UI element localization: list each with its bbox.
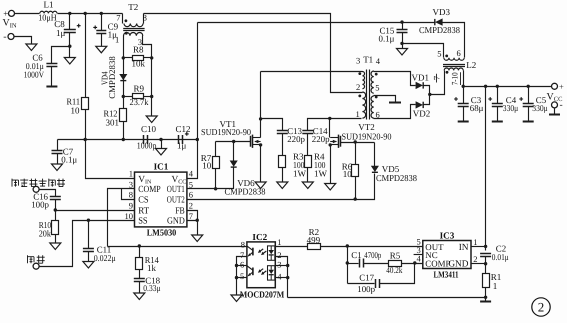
wire R9 to vert <box>144 96 152 98</box>
node Vin- terminal <box>8 34 14 40</box>
op-amp IC2 MOCD207M box <box>247 242 275 288</box>
wire IC2 pin2 down <box>276 257 288 298</box>
wire to R9 <box>124 96 133 98</box>
svg-text:7-10: 7-10 <box>449 72 459 85</box>
svg-text:L2: L2 <box>466 60 476 70</box>
svg-text:1: 1 <box>356 109 360 119</box>
ground R4 <box>302 182 313 189</box>
resistor R1 <box>483 274 490 288</box>
svg-text:3: 3 <box>129 179 133 189</box>
ground C11 <box>83 262 94 269</box>
ground VT1 source <box>255 182 266 189</box>
transformer T1 <box>358 70 377 120</box>
svg-text:6: 6 <box>240 259 244 269</box>
wire R6 bottom <box>355 177 357 200</box>
junction R7 bottom <box>214 187 217 190</box>
wire CS to COMP <box>122 189 135 200</box>
resistor R5 <box>389 261 402 267</box>
wire C18 to ground <box>139 282 141 294</box>
wire rail to C4 <box>497 87 499 104</box>
junction R8 right <box>150 56 153 59</box>
wire L2 pin7 to rectifier node <box>430 71 445 95</box>
svg-text:C17: C17 <box>359 272 374 282</box>
svg-text:0.022μ: 0.022μ <box>94 253 116 263</box>
svg-text:CS: CS <box>138 196 148 206</box>
wire GND pin <box>472 263 486 265</box>
junction C17 right <box>413 261 416 264</box>
capacitor C5 <box>523 103 534 105</box>
svg-text:2: 2 <box>356 82 360 92</box>
wire C1 to R5 <box>364 263 389 265</box>
junction C1 <box>346 261 349 264</box>
capacitor C15 <box>397 29 408 31</box>
svg-text:20k: 20k <box>39 229 52 239</box>
wire R4 to ground <box>307 168 309 183</box>
wire VD5 top <box>374 143 376 167</box>
svg-text:6: 6 <box>376 109 380 119</box>
svg-text:23.7k: 23.7k <box>130 97 149 107</box>
svg-text:6: 6 <box>189 190 193 200</box>
wire C16 to RT node <box>55 200 57 211</box>
resistor R8 <box>133 56 144 61</box>
svg-text:8: 8 <box>129 190 133 200</box>
junction C10/C12 ground <box>159 138 162 141</box>
op-amp IC1 LM5030 box <box>135 172 187 227</box>
IC3 pin numbers <box>417 237 478 265</box>
wire C5 to bar <box>528 107 530 122</box>
svg-text:1000p: 1000p <box>137 140 157 150</box>
inductor L1 <box>40 11 57 13</box>
svg-text:5: 5 <box>437 49 441 59</box>
svg-text:40.2k: 40.2k <box>386 265 402 275</box>
node Vout+ terminal <box>552 83 558 89</box>
junction R11/C7 rail <box>84 138 87 141</box>
junction C15/ground/L2 <box>400 42 403 45</box>
capacitor C13 <box>277 130 288 132</box>
capacitor C12 <box>178 135 180 144</box>
wire R10 to ground <box>55 235 57 244</box>
junction R12 bottom <box>122 138 125 141</box>
wire bottom return <box>288 297 486 299</box>
wire COMP net <box>108 189 135 247</box>
svg-text:-: - <box>3 31 6 42</box>
svg-text:T2: T2 <box>128 2 138 12</box>
IC1 pin texts <box>138 175 186 227</box>
junction pin5 <box>235 276 238 279</box>
svg-text:C1: C1 <box>351 250 361 260</box>
wire IN pin <box>472 246 486 248</box>
wire to RT pin <box>56 210 135 212</box>
resistor R7 <box>213 157 220 169</box>
junction C5 <box>527 85 530 88</box>
wire IC3 pin3 underline <box>413 254 415 256</box>
wire T1 pin5 center tap <box>374 96 396 102</box>
svg-text:220p: 220p <box>312 134 330 144</box>
wire IC2 pin4 <box>276 277 288 279</box>
wire rail to C3 <box>463 87 465 104</box>
junction L2 output <box>462 85 465 88</box>
wire IC2 pin6 <box>237 265 247 267</box>
transistor VT2 <box>330 135 340 148</box>
IC1 pin numbers <box>125 169 194 221</box>
svg-text:IC3: IC3 <box>440 230 455 240</box>
junction C15 top <box>400 20 403 23</box>
svg-text:SUD19N20-90: SUD19N20-90 <box>342 131 392 141</box>
svg-text:10k: 10k <box>132 59 146 69</box>
svg-text:301: 301 <box>106 117 120 127</box>
svg-text:1k: 1k <box>147 263 157 273</box>
wire C14 to drain rail <box>308 119 362 131</box>
transformer T2 <box>123 14 145 36</box>
junction VD6 top <box>232 140 235 143</box>
junction pin4 <box>286 276 289 279</box>
wire VT2 drain <box>329 119 331 138</box>
svg-text:1W: 1W <box>314 169 328 179</box>
svg-text:1μ: 1μ <box>177 140 187 150</box>
wire to C17 <box>348 283 375 285</box>
capacitor C18 <box>134 278 145 280</box>
wire R8 to vert <box>144 57 152 59</box>
capacitor C9 <box>96 30 106 32</box>
svg-text:1000V: 1000V <box>24 70 45 80</box>
svg-text:COMP: COMP <box>425 258 450 268</box>
ground R8/R9 <box>146 116 157 123</box>
svg-text:OUT2: OUT2 <box>167 196 185 206</box>
wire C7/C10/C12 row <box>58 139 198 141</box>
wire L2 out to rail <box>463 71 465 87</box>
wire to C11 <box>88 221 90 249</box>
wire aux VCC line <box>198 22 435 24</box>
svg-text:1: 1 <box>277 237 281 247</box>
svg-text:330μ: 330μ <box>532 103 548 113</box>
wire aux to IC1 VCC pin4 <box>187 23 198 179</box>
ground C8 <box>64 58 75 65</box>
resistor R2 <box>308 244 321 250</box>
svg-text:IC1: IC1 <box>154 161 169 171</box>
wire to C15 <box>402 23 404 30</box>
ground IC1 <box>192 235 203 242</box>
svg-text:VD3: VD3 <box>433 7 451 17</box>
transistor VT1 <box>251 135 261 148</box>
capacitor C6 <box>46 63 57 65</box>
wire to C1 <box>348 263 359 265</box>
junction pin6 <box>235 264 238 267</box>
junction RT/R10 <box>54 208 57 211</box>
svg-text:VD2: VD2 <box>413 109 431 119</box>
wire IC2 pin5 <box>237 277 247 279</box>
wire R8 right to ground <box>151 58 153 117</box>
wire IC2 pin7 to ground <box>237 257 247 296</box>
svg-text:100p: 100p <box>357 284 375 294</box>
svg-text:C12: C12 <box>176 124 191 134</box>
svg-text:220p: 220p <box>287 134 305 144</box>
svg-text:499: 499 <box>307 235 321 245</box>
ground input minus <box>26 44 37 51</box>
capacitor C16 <box>50 196 61 198</box>
wire VT1 gate <box>216 141 251 143</box>
node Vin+ terminal <box>9 10 15 16</box>
junction C8 on rail <box>68 12 71 15</box>
wire VD6 top <box>233 142 235 161</box>
op-amp IC3 LM3411 box <box>423 241 471 269</box>
wire C3 to bar <box>463 107 465 122</box>
wire to C13 <box>261 119 283 131</box>
wire comp vertical <box>347 247 349 284</box>
junction R8 left <box>122 56 125 59</box>
svg-text:6: 6 <box>457 48 461 58</box>
svg-text:68μ: 68μ <box>470 103 484 113</box>
ground C10/C12 <box>156 149 167 156</box>
capacitor C4 <box>492 103 503 105</box>
junction VCC vertical <box>196 138 199 141</box>
svg-text:+: + <box>559 82 564 92</box>
wire rail to R11 <box>85 14 87 98</box>
wire to R6 <box>355 143 357 165</box>
svg-text:1W: 1W <box>293 169 307 179</box>
svg-text:4: 4 <box>189 169 194 179</box>
diode VD3 <box>434 19 436 25</box>
wire COMP to IC2 pin8 <box>108 246 247 248</box>
wire T2 pin3 to R8 right <box>143 36 152 58</box>
svg-text:3: 3 <box>277 260 281 270</box>
ground bar output minus <box>549 114 560 116</box>
capacitor C11 <box>83 248 94 250</box>
resistor R14 <box>136 258 143 270</box>
svg-text:2: 2 <box>189 201 193 211</box>
wire OUT2 to gate network <box>187 174 375 200</box>
diode VD5 <box>371 166 378 171</box>
diode VD1 <box>416 82 422 88</box>
svg-text:10: 10 <box>343 169 353 179</box>
svg-text:CMPD2838: CMPD2838 <box>419 25 460 35</box>
wire FB to GND <box>187 211 198 221</box>
svg-text:R8: R8 <box>133 45 144 55</box>
svg-text:CMPD2838: CMPD2838 <box>225 187 266 197</box>
wire VD1/VD2 cathodes <box>424 86 430 105</box>
svg-text:RT: RT <box>138 207 149 217</box>
IC2 internal optocoupler cells <box>247 246 275 260</box>
svg-text:SUD19N20-90: SUD19N20-90 <box>201 127 251 137</box>
ground bar C5 <box>523 121 534 123</box>
svg-text:0.1μ: 0.1μ <box>61 155 77 165</box>
svg-text:0.33μ: 0.33μ <box>143 283 160 293</box>
junction compensation <box>346 244 349 247</box>
node sync input terminal <box>33 186 39 192</box>
wire C15 node to L2 pin5 <box>403 44 444 58</box>
wire VD3 to L2 pin6 <box>443 23 465 58</box>
wire T2 pin1 net <box>123 36 125 140</box>
svg-text:0.01μ: 0.01μ <box>492 252 509 262</box>
ground bar C3 <box>458 121 469 123</box>
capacitor C8 <box>64 29 76 31</box>
junction R11 on rail <box>84 12 87 15</box>
svg-text:330μ: 330μ <box>503 103 519 113</box>
svg-text:R5: R5 <box>390 250 401 260</box>
wire C2 to GND node <box>485 257 487 274</box>
wire VT1 drain to T1 pin3 <box>261 71 363 73</box>
wire rail to C8 <box>69 14 71 30</box>
svg-text:100p: 100p <box>31 199 49 209</box>
wire VT2 source to ground <box>330 145 332 184</box>
capacitor C3 <box>458 103 469 105</box>
junction pin3 <box>286 264 289 267</box>
wire IC2 pin1 to R2 <box>276 246 308 248</box>
wire T1 pin6 to VD2 <box>374 105 416 119</box>
wire C14 to R4 <box>307 134 309 156</box>
wire R11 to IC1 VIN <box>86 110 135 179</box>
wire R1 to ground <box>485 288 487 302</box>
svg-text:-: - <box>560 101 563 111</box>
wire rail to C5 <box>528 87 530 104</box>
wire rail T2 pin8 to T1 pin2 <box>144 14 363 93</box>
resistor R11 <box>82 98 89 110</box>
wire sync to C16 <box>40 190 56 197</box>
svg-text:C10: C10 <box>141 124 157 134</box>
wire C4 to bar <box>497 107 499 122</box>
wire to ground <box>161 140 163 149</box>
capacitor C14 <box>302 130 313 132</box>
node standby terminal <box>33 263 39 269</box>
svg-text:2: 2 <box>277 250 281 260</box>
wire C11 to ground <box>88 252 90 262</box>
wire VT1 drain vertical <box>260 72 262 138</box>
wire rail to C9 <box>101 14 103 31</box>
wire R5 to COMP pin <box>402 263 423 265</box>
resistor R6 <box>352 165 359 177</box>
wire R3 to ground <box>282 168 284 183</box>
svg-text:IC2: IC2 <box>252 232 267 242</box>
junction feedback drop <box>484 85 487 88</box>
wire VT1 source to ground <box>260 145 262 183</box>
svg-text:7: 7 <box>116 13 120 23</box>
junction rectifier output <box>428 93 431 96</box>
svg-text:SS: SS <box>138 217 148 227</box>
wire node to ground <box>69 47 71 58</box>
ground C18 <box>134 293 145 300</box>
wire C8 to ground node <box>69 33 71 47</box>
svg-text:L1: L1 <box>44 0 54 10</box>
capacitor C10 <box>143 135 145 144</box>
junction C11 <box>87 219 90 222</box>
junction R9 right <box>150 95 153 98</box>
figure number 2 <box>532 298 550 316</box>
wire R2 to IC3 OUT <box>321 246 423 248</box>
svg-text:4: 4 <box>277 271 282 281</box>
wire C9 to ground <box>101 34 103 47</box>
ground IC2 <box>231 295 242 302</box>
label standby (Chinese) <box>28 255 45 263</box>
junction FB/GND <box>196 219 199 222</box>
svg-text:4700p: 4700p <box>364 250 381 260</box>
svg-text:5: 5 <box>240 271 244 281</box>
svg-text:R9: R9 <box>134 83 145 93</box>
resistor R10 <box>52 221 59 235</box>
svg-text:COMP: COMP <box>138 185 161 195</box>
resistor R12 <box>120 109 127 122</box>
junction C4 <box>496 85 499 88</box>
wire output rail <box>464 86 552 88</box>
capacitor C17 <box>375 279 377 288</box>
svg-text:CMPD2838: CMPD2838 <box>376 173 417 183</box>
ground bar C6 <box>46 86 57 88</box>
wire T1 pin4 to VD1 <box>374 72 416 86</box>
svg-text:9: 9 <box>129 201 133 211</box>
wire OUT1 to gate network <box>187 168 234 189</box>
wire R14 to C18 <box>139 270 141 279</box>
junction VT1 source <box>259 143 262 146</box>
junction GND pin <box>484 262 487 265</box>
wire input to L1 <box>15 13 40 15</box>
junction VT2 source <box>329 143 332 146</box>
svg-text:VD1: VD1 <box>412 72 430 82</box>
svg-text:4: 4 <box>376 56 381 66</box>
diode VD6 <box>230 161 237 166</box>
wire C6 to bar ground <box>51 67 53 86</box>
wire C15 bottom <box>402 33 404 44</box>
wire C17 to COMP <box>380 264 415 284</box>
junction IN <box>484 245 487 248</box>
wire Vin- to ground <box>15 37 32 45</box>
svg-text:MOCD207M: MOCD207M <box>240 289 285 299</box>
resistor R3 <box>279 156 286 168</box>
junction R6 top <box>354 140 357 143</box>
capacitor C1 <box>359 259 361 268</box>
wire C7 to ground <box>57 154 59 165</box>
wire R7 bottom <box>215 169 217 189</box>
wire T2 pin7 drop <box>122 14 124 24</box>
ground C7 <box>52 164 63 171</box>
svg-text:CMPD2838: CMPD2838 <box>107 56 117 99</box>
svg-text:T1: T1 <box>363 54 373 64</box>
svg-text:1: 1 <box>473 237 477 247</box>
wire VT2 gate <box>341 142 375 144</box>
ground VT2 source <box>325 184 336 191</box>
svg-text:LM3411: LM3411 <box>433 270 458 280</box>
wire GND pin <box>187 221 198 236</box>
wire to R10 <box>55 211 57 221</box>
svg-text:1μ: 1μ <box>56 28 66 38</box>
junction R6 bottom <box>354 197 357 200</box>
svg-text:7: 7 <box>189 211 193 221</box>
wire Vcc sense drop <box>485 87 487 251</box>
junction C8/C6 node <box>68 45 71 48</box>
svg-text:OUT1: OUT1 <box>167 185 185 195</box>
ground R10 <box>50 243 61 250</box>
wire row to C7 <box>57 140 59 151</box>
inductor L2 <box>443 55 465 74</box>
svg-text:GND: GND <box>448 259 468 269</box>
svg-text:2: 2 <box>538 300 545 315</box>
svg-text:1: 1 <box>115 35 119 45</box>
svg-text:2: 2 <box>473 254 477 264</box>
svg-text:FB: FB <box>175 207 185 217</box>
svg-text:0.1μ: 0.1μ <box>379 34 395 44</box>
junction R14 <box>138 244 141 247</box>
ground bar C4 <box>492 121 503 123</box>
svg-text:10: 10 <box>125 211 134 221</box>
label sync pulse input (Chinese) <box>12 179 65 187</box>
svg-text:GND: GND <box>167 217 185 227</box>
IC2 pin numbers <box>240 237 282 281</box>
ground C9 <box>96 46 107 53</box>
svg-text:5: 5 <box>375 83 379 93</box>
junction bottom return <box>484 296 487 299</box>
svg-text:10: 10 <box>202 160 212 170</box>
svg-text:8: 8 <box>241 240 245 250</box>
wire T2 pin8 rise <box>143 14 145 24</box>
wire IC2 pin3 <box>276 265 288 267</box>
wire to R7 <box>215 142 217 157</box>
